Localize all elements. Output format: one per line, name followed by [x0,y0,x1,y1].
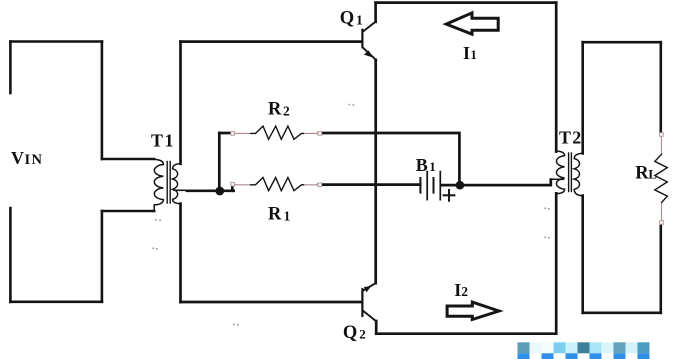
svg-text:2: 2 [359,327,366,342]
transistor Q1 emitter arm [363,48,376,61]
wire Q2 base rail (inner bottom edge) [181,301,362,304]
wire battery to node [442,184,461,187]
svg-text:IN: IN [25,152,44,168]
wire VIN loop left upper [9,42,12,94]
wire inner left vertical upper [179,42,182,164]
svg-text:L: L [648,167,657,182]
svg-text:Q: Q [343,323,357,343]
label VIN [11,148,43,168]
wire T1 primary top stub [102,158,154,161]
wire R2 right to battery node [319,133,460,182]
pin R2 right [318,132,322,136]
wire right vertical lower (from T2 primary bottom) [555,193,558,333]
resistor RL zigzag [655,154,668,202]
pin R1 left [231,182,235,186]
wire inner left vertical lower [179,204,182,302]
wire RL loop left lower [581,196,584,313]
svg-text:R: R [635,164,649,184]
wire RL loop right lower [659,223,662,313]
wire RL loop top [583,41,661,44]
transistor Q1 emitter arrow [364,50,373,57]
svg-text:I: I [463,43,470,63]
battery B1 plates [420,172,440,200]
label Q2 [343,323,366,343]
wire VIN loop top [10,40,102,43]
resistor RL leads [660,135,662,222]
speck artifacts [153,104,550,326]
wire Q1 collector riser [374,3,377,22]
wire top rail [376,1,557,4]
transformer T2 primary winding [556,151,564,194]
transformer T2 secondary winding [574,153,583,196]
transformer T1 secondary winding [173,164,181,204]
svg-text:T2: T2 [559,128,582,148]
pin R1 right [318,183,322,187]
wire VIN loop right upper [101,42,104,160]
battery plus sign [444,190,455,201]
transistor Q1 collector arm [363,22,376,32]
wire centre tap to node [187,189,234,192]
transistor Q2 emitter arm [363,283,376,291]
svg-text:R: R [268,205,282,225]
wire RL loop left upper [581,42,584,153]
transistor Q1 base bar [361,30,363,48]
svg-text:1: 1 [470,47,477,62]
wire RL loop bottom [583,311,661,314]
transformer T1 primary winding [154,159,163,211]
transistor Q2 emitter arrow [364,286,372,292]
wire node to T2 tap step [460,180,551,186]
svg-text:2: 2 [461,284,468,299]
wire VIN loop left lower [9,208,12,302]
transformer T2 core [569,153,572,192]
label I2 [454,280,468,300]
node junction dot B [456,181,465,190]
wire shared emitter line [374,60,377,283]
svg-text:2: 2 [283,103,290,118]
label RL [635,164,657,184]
wire bottom rail [376,332,556,335]
wire node to R2 branch vertical [218,133,221,191]
wire T1 primary bottom stub [102,210,154,213]
pin RL top [660,133,664,137]
svg-text:1: 1 [429,159,436,174]
resistor R2 leads [235,132,319,134]
pin R2 left [231,132,235,136]
label Q1 [340,8,363,28]
svg-text:1: 1 [284,208,291,223]
label R2 [268,100,290,120]
current arrow I2 (hollow, pointing right) [447,302,499,319]
pin RL bottom [660,221,664,225]
svg-text:V: V [11,148,24,168]
label B1 [416,155,436,175]
wire R1 left step [231,185,234,191]
label R1 [268,205,291,225]
transistor Q2 collector arm [363,311,376,321]
wire T2 tap thin [551,178,564,180]
svg-text:1: 1 [356,13,363,28]
svg-text:T1: T1 [151,131,175,151]
watermark checkerboard row 1 [518,342,650,353]
transformer T1 core [167,162,170,204]
svg-text:B: B [416,155,428,175]
wire T1 secondary centre tap (thin) [174,189,188,191]
wire R1 right to battery [319,183,421,186]
svg-text:Q: Q [340,8,354,28]
current arrow I1 (hollow, pointing left) [446,13,498,34]
svg-text:I: I [454,280,461,300]
wire VIN loop bottom [10,300,102,303]
wire R2 left stub [219,132,232,135]
resistor R1 leads [235,184,319,186]
node junction dot A [215,187,224,196]
resistor R1 zigzag [251,178,304,191]
wire VIN loop right lower [101,211,104,302]
watermark checkerboard row 2 [518,353,650,359]
label I1 [463,43,477,63]
resistor R2 zigzag [251,126,304,139]
transistor Q2 base bar [361,289,363,316]
svg-text:R: R [268,100,282,120]
wire right vertical upper (to T2 primary top) [555,3,558,152]
wire Q2 collector drop [375,321,378,334]
wire Q1 base rail (inner top edge) [181,40,362,43]
wire RL loop right upper [659,42,662,134]
